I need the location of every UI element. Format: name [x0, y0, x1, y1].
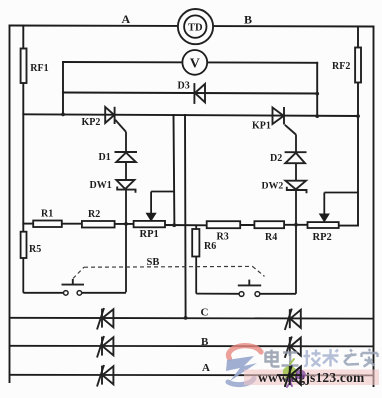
wire vertical x317 (V row to KP row) — [316, 63, 318, 116]
svg-text:RP2: RP2 — [313, 232, 332, 243]
svg-text:A: A — [122, 12, 131, 26]
svg-text:V: V — [190, 57, 200, 72]
svg-text:A: A — [202, 362, 210, 374]
wire D3 row — [63, 93, 317, 94]
wire left border vertical — [9, 26, 11, 383]
thyristor on row C left — [97, 308, 113, 330]
wire vertical x185.4 (KP row to C row) — [184, 115, 187, 318]
watermark pink band — [244, 370, 379, 386]
thyristor on row B right — [285, 336, 301, 357]
pushbutton SB right contacts — [238, 280, 261, 297]
svg-text:D1: D1 — [99, 152, 111, 163]
wire left pushbutton branch (R5 down and bottom of loop) — [23, 258, 126, 293]
zener DW2 — [286, 181, 307, 194]
svg-text:KP2: KP2 — [82, 117, 101, 128]
junction node x174 R row — [172, 223, 176, 227]
junction node x185 C row — [184, 316, 188, 320]
svg-text:D3: D3 — [178, 81, 190, 92]
thyristor on row A right — [285, 365, 301, 386]
watermark grey glyph dian — [266, 350, 280, 367]
wire right pushbutton branch — [196, 257, 296, 294]
resistor RF2 — [355, 48, 361, 83]
svg-text:KP1: KP1 — [252, 121, 271, 132]
svg-text:www.dgjs123.com: www.dgjs123.com — [258, 370, 365, 385]
resistor R3 — [207, 221, 241, 228]
zener DW1 — [116, 180, 135, 193]
thyristor on row C right — [285, 309, 301, 330]
svg-text:TD: TD — [188, 23, 203, 34]
diode D2 — [285, 152, 307, 163]
resistor R4 — [254, 221, 284, 228]
wire resistor row — [23, 223, 33, 225]
svg-text:R2: R2 — [88, 209, 100, 220]
wire phase row C — [10, 317, 374, 320]
svg-text:RF2: RF2 — [332, 61, 350, 72]
wire top bus — [10, 26, 374, 27]
potentiometer RP1 body — [134, 221, 165, 227]
wire vertical x23 top bus to R row — [22, 26, 24, 49]
watermark blue glyph ji — [304, 350, 321, 367]
wire vertical x296 (gate of KP1 down through D2 DW2 to button row) — [295, 135, 297, 294]
svg-text:C: C — [201, 307, 209, 319]
wire vertical x173.5 (KP row to R row) — [173, 115, 176, 225]
watermark grey glyph gong — [282, 353, 299, 366]
resistor RF1 — [21, 49, 27, 84]
watermark blue glyph shu — [323, 349, 339, 367]
watermark logo blue bolt — [226, 356, 257, 381]
svg-text:RP1: RP1 — [140, 229, 159, 240]
svg-text:B: B — [201, 336, 209, 348]
resistor R1 — [33, 221, 62, 228]
watermark grey glyph jia — [362, 349, 378, 367]
svg-text:R4: R4 — [265, 232, 277, 243]
resistor R2 — [82, 221, 115, 228]
wire KP thyristor row — [23, 114, 358, 116]
SB mechanical linkage dashed — [73, 266, 265, 278]
svg-text:RF1: RF1 — [30, 63, 48, 74]
wire phase row B — [10, 345, 374, 348]
svg-text:DW2: DW2 — [262, 181, 284, 192]
potentiometer RP2 body — [308, 222, 339, 228]
diode D3 — [194, 83, 205, 104]
pushbutton SB left contacts — [62, 279, 85, 295]
wire vertical x126 (gate of KP2 down through D1 DW1 to button row) — [125, 132, 127, 292]
resistor R6 — [192, 225, 199, 256]
junction node x358 KP row — [356, 114, 360, 118]
thyristor on row B left — [97, 336, 113, 358]
svg-text:R5: R5 — [29, 244, 41, 255]
svg-text:D2: D2 — [270, 153, 282, 164]
svg-text:R6: R6 — [204, 241, 216, 252]
watermark grey glyph zhi — [344, 350, 359, 365]
junction node x317 KP row — [315, 114, 319, 118]
junction node x63 KP row — [61, 113, 65, 117]
svg-text:DW1: DW1 — [90, 180, 112, 191]
thyristor KP1 — [273, 107, 297, 135]
thyristor on row A left — [97, 365, 113, 387]
wire V-meter row — [63, 61, 317, 64]
wire vertical x358 RF2 branch — [357, 27, 359, 48]
potentiometer RP1 wiper arrow — [146, 192, 174, 221]
watermark logo blue bottom arc — [228, 379, 254, 385]
wire vertical x63 from V row to KP row — [62, 62, 64, 114]
resistor R5 — [21, 232, 27, 258]
svg-text:B: B — [244, 13, 252, 27]
potentiometer RP2 wiper arrow — [320, 193, 358, 222]
wire right border vertical — [373, 27, 375, 387]
thyristor on row A right overlay stroke — [277, 365, 302, 386]
diode D1 — [115, 152, 138, 162]
junction node x126 R row — [124, 222, 128, 226]
svg-text:R3: R3 — [217, 232, 229, 243]
wire phase row A — [10, 374, 374, 377]
thyristor KP2 — [105, 107, 126, 132]
voltmeter V — [182, 50, 207, 75]
svg-text:R1: R1 — [41, 209, 53, 220]
watermark colorful mascot glyph — [283, 359, 306, 387]
tachogenerator TD — [178, 9, 213, 44]
svg-text:SB: SB — [147, 257, 160, 268]
watermark logo red arc — [229, 346, 261, 359]
junction node x296 R row — [294, 223, 298, 227]
junction node x317 D3 row — [315, 92, 319, 96]
